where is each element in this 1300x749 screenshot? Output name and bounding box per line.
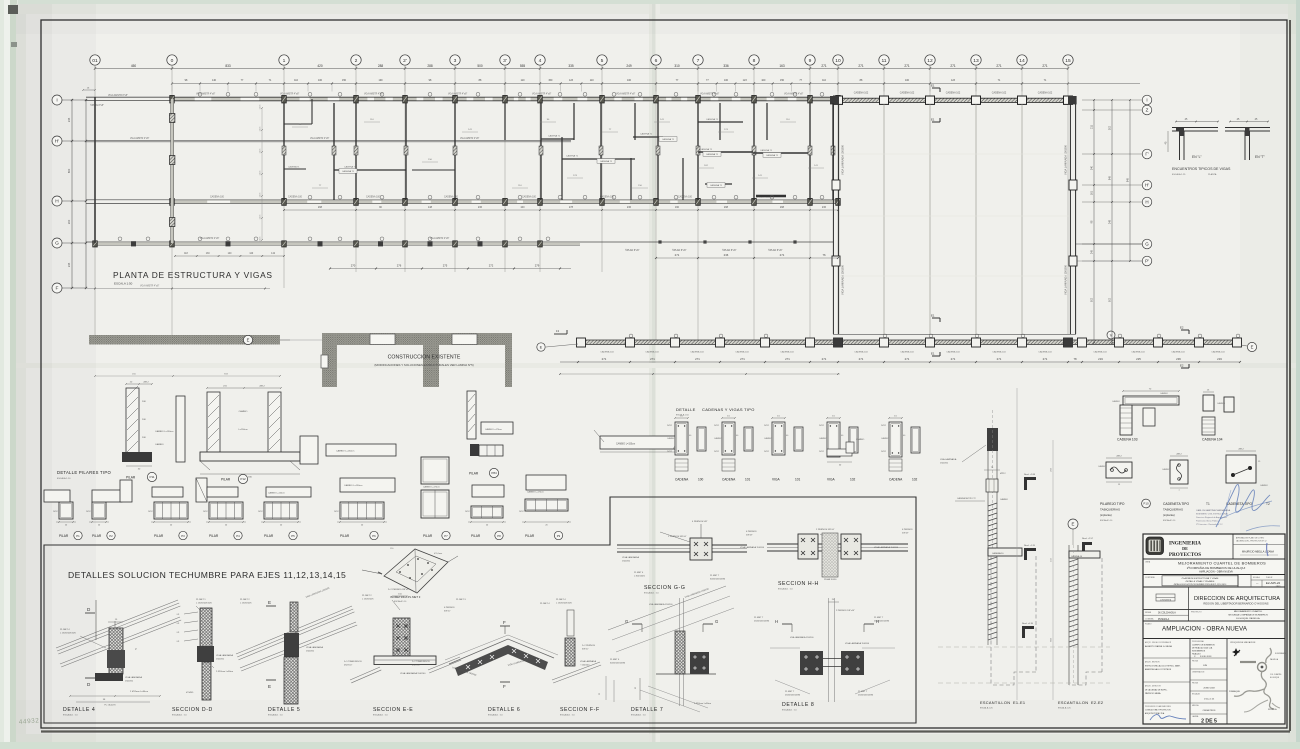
svg-text:150: 150 [548,79,553,82]
svg-text:272: 272 [489,264,494,268]
svg-text:2 Ø12mm L=80cm: 2 Ø12mm L=80cm [216,671,233,673]
svg-text:CADENA 102: CADENA 102 [992,92,1007,95]
svg-text:2 Ø12mm L=80cm: 2 Ø12mm L=80cm [694,703,711,705]
svg-text:300/250/150/5M: 300/250/150/5M [710,579,725,581]
svg-text:150/200: 150/200 [622,561,631,563]
svg-text:PL MET 7: PL MET 7 [754,617,764,619]
svg-text:163: 163 [779,64,785,68]
plan title PLANTA DE ESTRUCTURA Y VIGAS [113,270,273,286]
svg-text:2Ø12: 2Ø12 [258,511,263,513]
svg-text:CADENA 71: CADENA 71 [710,184,723,187]
svg-text:FECHA: FECHA [1192,682,1199,685]
svg-text:150/200: 150/200 [125,681,134,683]
svg-text:CAMBIO L=150cm: CAMBIO L=150cm [616,443,635,446]
svg-text:VIGA LAMINADA: VIGA LAMINADA [622,556,639,559]
svg-text:ARQTO. REVISOR: ARQTO. REVISOR [1145,661,1160,664]
escantillon reference lines mid [1017,388,1053,700]
svg-text:(s/planta): (s/planta) [1163,513,1175,517]
section marker 13 above chain start [554,333,567,335]
svg-text:150: 150 [342,79,347,82]
svg-text:CADENA 104: CADENA 104 [946,351,960,354]
top dimension row 2 sub-dims [171,79,1140,91]
cadeneta tipo T2 detail [1226,449,1270,507]
svg-text:½PLAN 6"x6": ½PLAN 6"x6" [722,248,737,252]
svg-text:123: 123 [951,79,956,82]
svg-text:JUNIO 2018: JUNIO 2018 [1203,688,1215,690]
svg-text:236: 236 [627,206,632,209]
svg-text:8: 8 [753,58,756,64]
svg-text:2Ø12: 2Ø12 [1116,456,1122,458]
svg-text:SECCION D-D: SECCION D-D [172,707,213,713]
svg-text:271: 271 [950,64,956,68]
svg-text:CAMBIO: CAMBIO [819,437,827,440]
svg-text:H: H [775,619,778,624]
svg-text:271: 271 [785,357,790,361]
svg-text:271: 271 [602,357,607,361]
svg-text:148: 148 [428,206,433,209]
svg-text:PILAR 30/30: PILAR 30/30 [824,578,837,581]
svg-text:110: 110 [822,79,826,82]
svg-text:271: 271 [859,357,864,361]
cadena 104 detail right [1202,390,1234,442]
svg-text:PL MET 1: PL MET 1 [196,599,206,601]
dimension row below H wall [283,206,839,211]
svg-text:5/8"x8": 5/8"x8" [902,533,909,535]
svg-text:DETALLE 8: DETALLE 8 [782,702,814,708]
svg-text:CADENA 100: CADENA 100 [366,195,381,198]
detalle 5 roof detail [236,586,357,716]
svg-text:ESCALA 1:10: ESCALA 1:10 [1100,519,1113,522]
svg-text:CROQUIS DE UBICACION: CROQUIS DE UBICACION [1230,641,1256,644]
svg-text:MEJORAMIENTO CUARTEL: MEJORAMIENTO CUARTEL [1234,610,1263,613]
blue signature in signature cell [1150,715,1186,720]
note construccion existente [374,355,473,368]
axis grid lines vertical [95,65,1068,340]
svg-text:CAMBIO: CAMBIO [1098,465,1106,468]
svg-text:VGA AMSTR 4"x8": VGA AMSTR 4"x8" [448,93,467,96]
chain axis I right hall top CADENA 102 [830,92,1077,105]
svg-text:AMPLIACION - OBRA NUEVA: AMPLIACION - OBRA NUEVA [1199,571,1233,574]
svg-text:CONSULTORA Y PROYECTOS: CONSULTORA Y PROYECTOS [1145,709,1171,712]
bubble E mid [537,329,578,351]
svg-text:L=150cm: L=150cm [238,429,247,431]
svg-text:502: 502 [1091,297,1094,302]
svg-text:CADENA 71: CADENA 71 [600,160,613,163]
svg-text:G: G [55,241,59,247]
svg-text:E: E [1072,522,1075,527]
svg-text:VIGA LAMINADA: VIGA LAMINADA [306,646,323,649]
pilar P12 elevation detail [200,386,300,484]
svg-text:110: 110 [294,79,298,82]
svg-text:CADENA 104: CADENA 104 [992,351,1006,354]
svg-text:DETALLE 4: DETALLE 4 [63,707,95,713]
svg-text:PATRICIO MENA: PATRICIO MENA [1145,692,1161,695]
svg-text:2 PERNOS 5/8"x10": 2 PERNOS 5/8"x10" [836,610,855,612]
svg-text:L 150/150/150/5: L 150/150/150/5 [60,633,77,635]
svg-text:190: 190 [675,206,680,209]
svg-text:E2-E2: E2-E2 [1091,700,1103,705]
svg-text:CADENETA TIPO: CADENETA TIPO [1226,502,1253,506]
svg-text:E: E [1251,345,1254,350]
svg-text:4 PERNOS: 4 PERNOS [746,531,757,533]
svg-text:CM-METROS: CM-METROS [1203,710,1216,712]
svg-text:ALBERTO RASSE G. MEJIA: ALBERTO RASSE G. MEJIA [1145,645,1172,648]
svg-text:REGION DEL LIBERTADOR BERNARDO: REGION DEL LIBERTADOR BERNARDO O´HIGGINS [1203,602,1268,606]
section cut markers E2 at chain right [1180,326,1189,369]
svg-text:ISOMETRICA PL MET 3: ISOMETRICA PL MET 3 [390,595,421,599]
svg-text:E1: E1 [931,314,935,318]
bubble E left existing [243,335,290,344]
cadena viga section details row [667,416,920,482]
svg-text:248: 248 [1109,219,1112,224]
svg-text:4 PERNOS: 4 PERNOS [902,529,913,531]
svg-text:2 Ø12mm L=80cm: 2 Ø12mm L=80cm [130,691,148,693]
svg-text:3/8"x5": 3/8"x5" [444,611,451,613]
hall west wall viga laminada axis 10 [832,104,845,334]
svg-text:PILAR: PILAR [221,478,231,482]
pilar cross-section row P1 to P9 [53,499,571,540]
svg-text:271: 271 [858,64,864,68]
dimension row 270 below G [329,264,571,270]
svg-text:LAMINA: LAMINA [1192,715,1199,718]
svg-text:ENCUENTROS TIPICOS DE VIGAS: ENCUENTROS TIPICOS DE VIGAS [1172,167,1231,171]
svg-text:PLAN N°: PLAN N° [1266,576,1273,579]
closet walls near axis 1 [284,99,312,169]
svg-text:CAMBIO: CAMBIO [155,443,164,446]
sub dimension row below G axes 0-1 [174,253,285,257]
svg-text:298: 298 [780,206,785,209]
svg-text:F: F [56,286,59,292]
svg-text:245: 245 [67,262,71,267]
title block middle data column [1190,640,1227,725]
svg-text:VIGA LAMINADA 150/200: VIGA LAMINADA 150/200 [874,546,899,549]
svg-text:CADENA 71: CADENA 71 [342,170,355,173]
svg-text:PILAR: PILAR [59,534,69,538]
svg-text:2: 2 [355,58,358,64]
title block croquis de ubicacion map [1229,641,1287,712]
corner registration mark top-left [8,5,18,14]
svg-text:PL MET 4: PL MET 4 [540,603,550,605]
svg-text:P12: P12 [240,477,246,481]
svg-text:CADENETA TIPO T2: CADENETA TIPO T2 [957,497,977,500]
svg-text:102: 102 [850,478,856,482]
svg-text:ESCALA: ESCALA [1253,576,1261,579]
svg-text:E1: E1 [931,352,935,356]
svg-text:CADENA 104: CADENA 104 [1202,438,1223,442]
svg-text:T1: T1 [1206,502,1210,506]
svg-text:TABIQUERIAS: TABIQUERIAS [1100,508,1120,512]
svg-text:14: 14 [1019,58,1025,64]
svg-text:845: 845 [1127,177,1130,182]
svg-text:FIRMA: FIRMA [1145,611,1152,614]
title block row1 logo ingenieria de proyectos [1143,534,1285,559]
title block row4 direccion de arquitectura [1143,587,1285,609]
pilar P84 detail [467,391,513,478]
svg-text:L 150/150/150/5: L 150/150/150/5 [196,603,213,605]
svg-text:CAMBIO: CAMBIO [667,437,675,440]
svg-text:102: 102 [912,478,918,482]
blue pen signature over details [1216,484,1280,531]
svg-text:12: 12 [927,58,933,64]
svg-text:ESCANTILLON: ESCANTILLON [980,700,1010,705]
svg-text:250/250/150/5M: 250/250/150/5M [858,695,873,697]
svg-text:CAMBIO: CAMBIO [1000,498,1008,501]
svg-text:219: 219 [1217,357,1222,361]
svg-text:100: 100 [724,79,729,82]
pilar P11 elevation detail [122,382,185,482]
svg-text:H': H' [1145,183,1149,188]
svg-text:1ª Direccion - Revisado N° 12: 1ª Direccion - Revisado N° 12 [1196,523,1223,526]
svg-text:ESCALA 1:50: ESCALA 1:50 [114,282,133,286]
center vertical fold shadow [649,4,659,742]
svg-text:3: 3 [454,58,457,64]
svg-text:VGA AMSTR 4"x8": VGA AMSTR 4"x8" [532,93,551,96]
svg-text:CADENAS Y VIGAS TIPO: CADENAS Y VIGAS TIPO [702,407,755,412]
svg-text:V: V [1110,333,1113,337]
svg-text:CADENETA TIPO: CADENETA TIPO [1163,502,1190,506]
svg-text:110: 110 [521,79,525,82]
svg-text:S.FERNANDO: S.FERNANDO [1275,652,1287,655]
right dimension verticals [1091,99,1131,344]
svg-text:2Ø12: 2Ø12 [465,511,470,513]
svg-text:76: 76 [822,253,826,257]
svg-text:L 150/150/150/5: L 150/150/150/5 [556,603,573,605]
svg-text:CADENA 100: CADENA 100 [444,195,459,198]
svg-text:CAMBIO: CAMBIO [764,437,772,440]
svg-text:G: G [1145,242,1149,247]
title block row2 project name [1143,561,1285,575]
svg-text:101: 101 [795,478,801,482]
svg-text:ARQTO. DIRECTOR: ARQTO. DIRECTOR [1145,685,1161,688]
svg-text:CAMBIO L=170cm: CAMBIO L=170cm [485,428,502,431]
svg-text:H: H [55,199,59,205]
svg-text:VGA AMSTR 4"x8": VGA AMSTR 4"x8" [430,237,449,240]
svg-text:CAMBIO: CAMBIO [714,437,722,440]
svg-text:278: 278 [569,206,574,209]
escantillon dashed base lines [938,647,1110,683]
svg-text:150: 150 [780,79,785,82]
interior room dimension clutter [292,119,824,188]
svg-text:EL HUIQUE: EL HUIQUE [1270,677,1280,679]
svg-text:PROYECTOS: PROYECTOS [1169,552,1201,558]
svg-text:271: 271 [695,357,700,361]
svg-text:DE HUALQUI 2DA. CIA.: DE HUALQUI 2DA. CIA. [1192,647,1213,650]
svg-text:P7: P7 [444,534,448,538]
title block row6 plano ampliacion obra nueva [1143,623,1285,639]
svg-text:100: 100 [379,79,384,82]
beam line axis F [86,285,270,290]
svg-text:VGA AMSTR 4"x8": VGA AMSTR 4"x8" [616,93,635,96]
svg-text:CADENA 100: CADENA 100 [522,195,537,198]
svg-text:ESCALA 1 : 10: ESCALA 1 : 10 [778,588,793,591]
svg-text:275: 275 [443,264,448,268]
svg-text:2 PERNOS 3/8"x5": 2 PERNOS 3/8"x5" [816,529,835,531]
svg-text:PILAR: PILAR [92,534,102,538]
svg-text:VGA AMSTR 4"x8": VGA AMSTR 4"x8" [310,137,329,140]
svg-text:PL MET 4: PL MET 4 [634,572,644,574]
svg-text:PILAR: PILAR [423,534,433,538]
svg-text:VIGA LAMINADA 150/200: VIGA LAMINADA 150/200 [845,642,870,645]
svg-text:PROYECTO: PROYECTO [1191,612,1202,614]
svg-text:PLANTA DE ESTRUCTURA Y VIGAS: PLANTA DE ESTRUCTURA Y VIGAS [1182,577,1219,580]
svg-text:PL MET 7: PL MET 7 [785,691,795,693]
dimension row below chain E [559,357,1241,375]
svg-text:ESCALA 1 : 10: ESCALA 1 : 10 [644,592,659,595]
svg-text:CADENA 100: CADENA 100 [678,195,693,198]
svg-text:2 DE 5: 2 DE 5 [1201,719,1217,725]
seccion F-F detail [552,599,601,717]
svg-text:W.BOMBEROS: W.BOMBEROS [1192,651,1206,653]
svg-text:CADENA 104: CADENA 104 [1038,351,1052,354]
svg-text:11: 11 [881,58,886,64]
svg-text:CAMBIO: CAMBIO [239,410,248,413]
svg-text:0: 0 [171,58,174,64]
svg-text:200: 200 [67,219,71,224]
svg-text:AMERITA GALLO PORTEUS: AMERITA GALLO PORTEUS [1145,668,1172,671]
left room vertical dim stack [260,104,263,242]
pilar long bar with cambio label [594,430,683,452]
svg-text:G: G [625,619,628,624]
wall axis H [86,195,840,205]
svg-text:100: 100 [761,79,766,82]
svg-text:CADENA 104: CADENA 104 [735,351,749,354]
svg-text:271: 271 [650,357,655,361]
svg-text:ESCALA 1:25: ESCALA 1:25 [1172,173,1186,176]
svg-text:VIGA LAMINADA: VIGA LAMINADA [580,660,597,663]
svg-text:123: 123 [743,79,748,82]
svg-text:PL MET 2: PL MET 2 [362,595,372,597]
svg-text:110: 110 [590,79,594,82]
svg-text:336: 336 [723,64,729,68]
svg-text:F: F [503,620,506,625]
hall interior grid lines [840,104,1069,334]
svg-text:ESCALA 1 : 10: ESCALA 1 : 10 [373,714,388,717]
svg-text:PILAREJO TIPO: PILAREJO TIPO [1100,502,1125,506]
svg-text:P10: P10 [1143,502,1149,506]
pilar intermediate bar detail [300,436,396,464]
svg-text:150/200: 150/200 [306,651,315,653]
svg-text:P1: P1 [76,534,80,538]
svg-text:CADENA 71: CADENA 71 [548,135,561,138]
cadeneta tipo T1 detail [1162,454,1210,523]
svg-text:DETALLE: DETALLE [676,407,696,412]
svg-text:½PLAN 6"x6": ½PLAN 6"x6" [672,248,687,252]
svg-text:PL MET 6: PL MET 6 [610,659,620,661]
svg-text:CADENA 102: CADENA 102 [854,92,869,95]
svg-text:ESCANTILLON: ESCANTILLON [1058,700,1088,705]
svg-text:271: 271 [780,253,785,257]
svg-text:100: 100 [698,478,704,482]
svg-text:271: 271 [821,64,827,68]
pilarejo tipo P10 detail [1098,456,1150,523]
pilar upper small sections row [44,475,566,502]
svg-text:CADENA 104: CADENA 104 [1211,351,1225,354]
wall axis I top - main beam and masonry [86,93,840,107]
svg-text:E: E [268,684,271,689]
svg-text:Ø1/4"x4": Ø1/4"x4" [344,665,352,667]
svg-text:CADENA 71: CADENA 71 [766,154,779,157]
interior partition walls horizontal [334,118,808,196]
svg-text:5+5 TIRAFONDOS: 5+5 TIRAFONDOS [344,660,362,663]
svg-text:PILAR: PILAR [469,472,479,476]
svg-text:271: 271 [822,357,827,361]
svg-text:SEGUNDA COMPAÑIA DE BOMBEROS: SEGUNDA COMPAÑIA DE BOMBEROS [1228,614,1268,617]
title block bottom grid signatures [1143,639,1227,725]
svg-text:CADENA 102: CADENA 102 [946,92,961,95]
svg-text:RICHILLA: RICHILLA [1268,708,1277,711]
svg-text:P11: P11 [149,475,154,479]
svg-text:PALMILLA: PALMILLA [1270,658,1279,661]
svg-text:CADENA 104: CADENA 104 [690,351,704,354]
svg-text:G: G [715,619,718,624]
svg-text:100: 100 [520,206,525,209]
svg-text:2Ø12: 2Ø12 [259,386,265,388]
pilar P7 big square sections [421,457,449,518]
detalle pilares tipo title [57,470,111,480]
svg-text:245: 245 [1091,249,1094,254]
svg-text:2Ø12: 2Ø12 [86,511,91,513]
svg-text:298: 298 [318,206,323,209]
svg-text:302: 302 [1109,125,1112,130]
svg-text:5: 5 [601,58,604,64]
seccion D-D detail [172,599,233,717]
detalle 4 roof detail [56,600,181,717]
svg-text:CONTIENE: CONTIENE [1145,577,1156,579]
svg-text:271: 271 [675,253,680,257]
svg-text:CADENA 104: CADENA 104 [900,351,914,354]
svg-text:100: 100 [318,79,323,82]
svg-text:CAMBIO L=150cm: CAMBIO L=150cm [336,450,354,453]
svg-text:VIGA AMSTR 8"x8": VIGA AMSTR 8"x8" [108,94,128,97]
svg-text:6: 6 [655,58,658,64]
title block row5 region comuna proyecto [1143,609,1285,621]
svg-text:CAMBIO: CAMBIO [856,438,865,441]
svg-text:300/250/150/5M: 300/250/150/5M [610,663,625,665]
svg-text:P9: P9 [557,534,561,538]
svg-text:298: 298 [724,206,729,209]
svg-text:150/200: 150/200 [216,659,225,661]
svg-text:CAMBIO L=170cm: CAMBIO L=170cm [423,486,440,489]
svg-text:CARLOS MARTINEZ ARRIAGADA: CARLOS MARTINEZ ARRIAGADA [1196,509,1231,512]
detalle 7 label [599,676,663,717]
svg-text:CUERPO DE BOMBEROS: CUERPO DE BOMBEROS [1192,645,1215,647]
svg-text:250/250/150/5M: 250/250/150/5M [754,621,769,623]
svg-text:310: 310 [674,64,680,68]
svg-text:271: 271 [904,64,910,68]
svg-text:845: 845 [1109,175,1112,180]
svg-text:VGA LAMINADA 150/200: VGA LAMINADA 150/200 [649,603,673,606]
techumbre details box frame [44,497,916,723]
svg-text:ØP12: ØP12 [1000,473,1006,475]
svg-text:P84: P84 [491,471,497,475]
svg-text:1A DIRECCION - PROYECTOS N° 12: 1A DIRECCION - PROYECTOS N° 12 [1236,540,1267,543]
seccion E-E detail [344,589,461,717]
svg-text:271: 271 [740,357,745,361]
svg-text:5/8"x8": 5/8"x8" [746,535,753,537]
svg-text:CONSTRUCCION EXISTENTE: CONSTRUCCION EXISTENTE [388,355,461,361]
svg-text:CADENA: CADENA [675,478,689,482]
svg-text:CADENA 71: CADENA 71 [662,138,675,141]
bubble V at chain [1107,331,1115,339]
svg-text:PUMANLA: PUMANLA [1158,618,1170,621]
svg-text:236: 236 [1176,357,1181,361]
svg-text:P4: P4 [236,534,240,538]
svg-text:236: 236 [478,206,483,209]
svg-text:ESCALA 1:10: ESCALA 1:10 [676,414,690,417]
svg-text:P2: P2 [109,534,113,538]
svg-text:502: 502 [1109,297,1112,302]
svg-text:ESCALA 1 : 10: ESCALA 1 : 10 [488,714,503,717]
